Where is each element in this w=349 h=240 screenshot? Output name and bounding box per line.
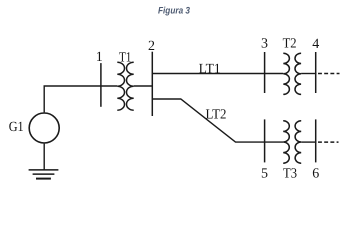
ground bbox=[29, 170, 59, 179]
bus 3 bbox=[264, 52, 266, 93]
transformer T1 bbox=[117, 62, 133, 110]
svg-text:T1: T1 bbox=[119, 51, 132, 66]
svg-text:6: 6 bbox=[312, 167, 319, 182]
transformer T2 bbox=[283, 53, 301, 94]
svg-text:4: 4 bbox=[312, 37, 319, 52]
wire: line LT1 from bus 2 to T2 primary bbox=[152, 73, 283, 75]
wire: dashed continuation after bus 6 bbox=[318, 141, 339, 143]
svg-text:LT1: LT1 bbox=[199, 62, 221, 77]
transformer T3 bbox=[283, 121, 301, 163]
generator G1 bbox=[29, 113, 59, 143]
svg-text:T2: T2 bbox=[283, 37, 297, 52]
bus 1 bbox=[100, 63, 102, 107]
bus 2 bbox=[151, 52, 153, 116]
svg-text:1: 1 bbox=[96, 50, 103, 65]
wire: line LT2 from bus 2 (jog down) to T3 primary bbox=[152, 99, 283, 142]
svg-text:G1: G1 bbox=[9, 120, 24, 135]
bus 6 bbox=[315, 119, 317, 162]
wire: T2 secondary to bus 4 bbox=[301, 73, 316, 75]
wire: dashed continuation after bus 4 bbox=[318, 73, 340, 75]
wire: generator to ground bbox=[43, 144, 45, 170]
svg-text:5: 5 bbox=[261, 167, 268, 182]
wire: generator riser and main bus feed bbox=[44, 86, 117, 112]
bus 5 bbox=[264, 119, 266, 162]
svg-text:LT2: LT2 bbox=[206, 107, 227, 122]
wire: T1 secondary to bus 2 bbox=[134, 85, 153, 87]
svg-text:Figura 3: Figura 3 bbox=[158, 5, 191, 16]
bus 4 bbox=[315, 52, 317, 93]
svg-text:2: 2 bbox=[148, 39, 155, 54]
svg-text:T3: T3 bbox=[283, 167, 297, 182]
svg-text:3: 3 bbox=[261, 37, 268, 52]
wire: T3 secondary to bus 6 bbox=[301, 141, 316, 143]
